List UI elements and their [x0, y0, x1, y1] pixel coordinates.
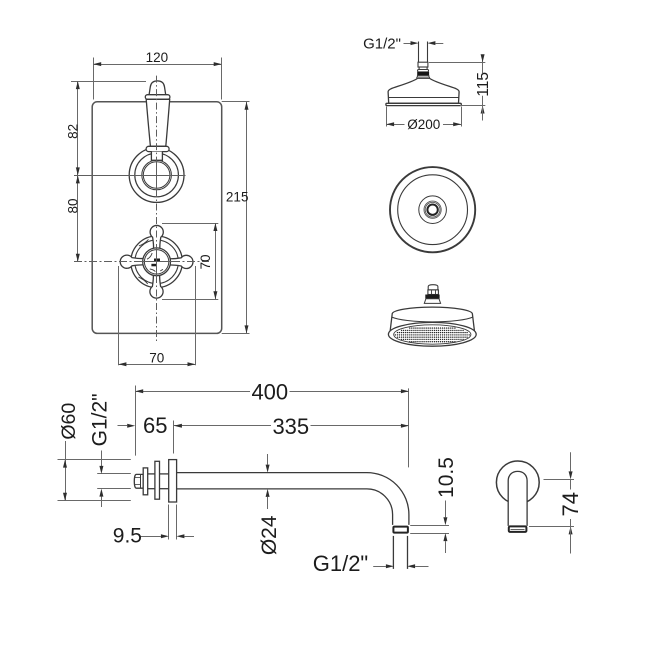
svg-text:G1/2": G1/2"	[89, 393, 112, 446]
svg-text:65: 65	[143, 413, 167, 438]
arm outlet pipe	[393, 536, 407, 569]
valve centreline	[156, 76, 158, 342]
spray face perforations	[395, 327, 470, 342]
dim diameter 24	[258, 454, 281, 555]
dim 70 vertical	[162, 223, 218, 300]
arm outlet nut	[393, 527, 408, 533]
head G1/2 label	[363, 35, 401, 52]
bottom view connector	[424, 285, 440, 304]
arm G1/2 wall end	[89, 393, 131, 507]
cross handle hub	[143, 248, 171, 276]
cross handle lobes	[120, 225, 193, 298]
svg-text:120: 120	[146, 50, 169, 65]
dim 65	[118, 413, 168, 438]
flange circle	[496, 461, 539, 504]
svg-text:Ø60: Ø60	[58, 403, 80, 440]
arm G1/2 outlet label	[313, 551, 429, 576]
svg-text:Ø200: Ø200	[407, 117, 440, 132]
cross centreline	[74, 261, 209, 263]
dim 9.5	[113, 505, 194, 548]
lever circle centreline	[74, 175, 186, 177]
dim 70 bottom	[118, 266, 195, 366]
dim diameter 200	[386, 107, 461, 133]
svg-text:70: 70	[149, 350, 164, 365]
head connector fitting	[417, 62, 430, 78]
svg-text:400: 400	[251, 380, 288, 405]
dim 82	[65, 81, 146, 175]
head top view	[390, 167, 475, 252]
dim 10.5	[410, 457, 458, 553]
dim 80	[65, 175, 80, 261]
dim 335	[174, 414, 409, 454]
flange nut front	[509, 526, 527, 532]
svg-text:335: 335	[272, 414, 309, 439]
dim 120 plate width	[93, 50, 222, 100]
svg-text:82: 82	[65, 124, 80, 139]
ring highlight arcs	[138, 239, 148, 284]
svg-text:9.5: 9.5	[113, 525, 142, 548]
lever handle	[145, 81, 170, 160]
valve plate	[92, 102, 222, 334]
bottom view drum	[390, 307, 474, 331]
head inlet pipe	[419, 42, 428, 63]
svg-text:115: 115	[475, 72, 492, 97]
svg-text:80: 80	[65, 198, 80, 213]
dim diameter 60	[58, 403, 131, 501]
svg-text:215: 215	[226, 190, 249, 205]
cross handle ring	[131, 236, 183, 288]
svg-text:70: 70	[198, 254, 213, 269]
head bell profile	[386, 79, 461, 106]
head G1/2 arrows	[404, 41, 444, 45]
svg-text:Ø24: Ø24	[258, 515, 281, 555]
arm wall stub and flange	[134, 460, 176, 502]
svg-text:G1/2": G1/2"	[363, 35, 401, 52]
dim 400	[135, 380, 409, 468]
svg-text:74: 74	[558, 492, 583, 516]
arm tube	[177, 473, 409, 525]
flange tube front	[508, 471, 527, 526]
svg-text:G1/2": G1/2"	[313, 551, 369, 576]
bottom view face	[388, 322, 476, 346]
dim 115	[429, 54, 492, 120]
lever escutcheon circles	[129, 148, 184, 203]
svg-text:10.5: 10.5	[435, 457, 458, 498]
dim 74	[529, 452, 583, 553]
dim 215 plate height	[222, 102, 250, 334]
